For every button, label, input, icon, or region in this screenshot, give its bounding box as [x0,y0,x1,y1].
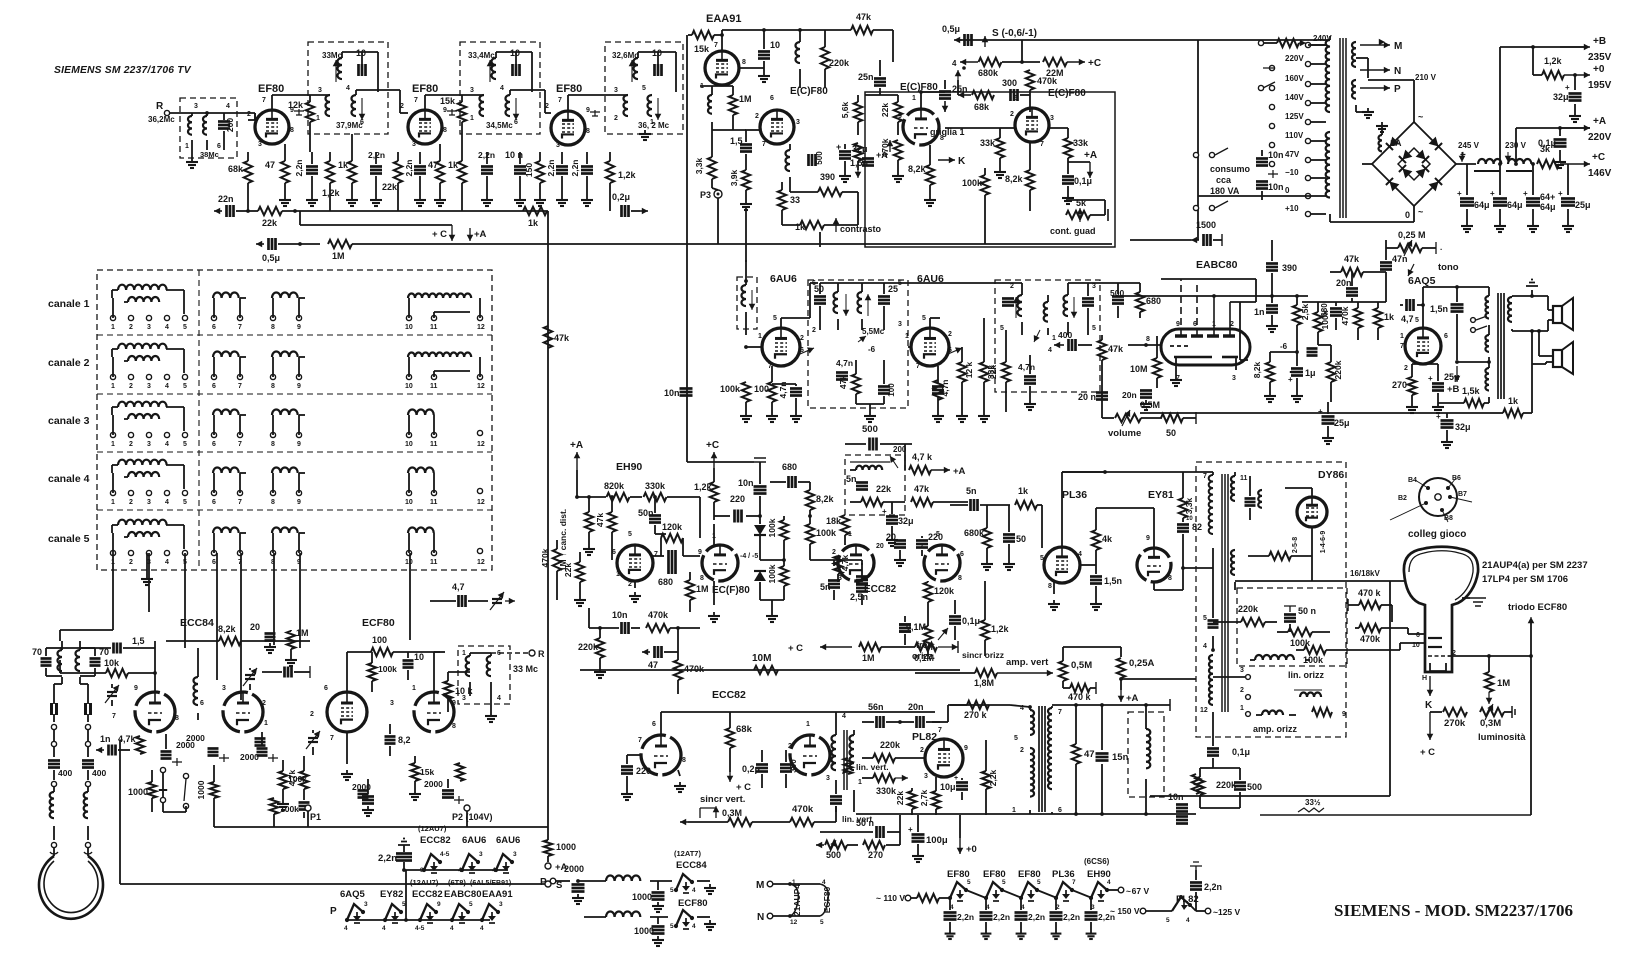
heater cap 2,2n 4 [1050,898,1081,939]
capacitor 2000 p [564,864,585,904]
svg-text:110V: 110V [1285,131,1304,140]
coil T2c [500,85,519,126]
capacitor 8,2 mix [385,724,411,756]
svg-text:32μ: 32μ [1455,422,1471,432]
capacitor 10n pd [699,495,702,502]
svg-text:2: 2 [920,747,924,754]
svg-text:10: 10 [405,324,413,331]
vert transformer core [844,730,847,790]
svg-text:160V: 160V [1285,74,1304,83]
row divider 1 [97,334,492,336]
resistor 22k snd [988,330,1010,412]
ground 64u b [1494,222,1506,232]
label PL36 [1062,489,1087,501]
svg-text:22k: 22k [563,563,573,577]
switch fine tuning [160,767,188,812]
svg-text:7: 7 [238,324,242,331]
svg-text:1A: 1A [1390,138,1402,148]
svg-text:100k: 100k [816,528,837,538]
label P s [330,906,337,917]
svg-text:15k: 15k [440,96,456,106]
svg-text:M: M [756,880,764,891]
coil T3b [614,87,628,122]
node R input [148,101,192,124]
wire S line [958,28,1330,47]
svg-text:200: 200 [225,118,235,132]
svg-text:0,3M: 0,3M [1480,718,1501,729]
resistor 18k [826,515,849,545]
row divider 3 [97,451,492,453]
bridge diode D2 [1429,137,1442,150]
wire tap 240V [1311,44,1326,46]
resistor 1k pl [1015,486,1042,548]
svg-text:1000: 1000 [128,787,148,797]
wire ey plate [1122,508,1154,548]
svg-text:1: 1 [905,333,909,340]
capacitor 220 eh2 [597,622,600,629]
resistor 12k [958,347,974,412]
arrow +A agc [1068,150,1097,178]
canale 3 coil 10-12 [405,409,485,448]
svg-text:33: 33 [790,195,800,205]
svg-text:100k: 100k [720,384,741,394]
node N feed [757,912,792,923]
svg-text:0,1μ: 0,1μ [1538,138,1556,148]
coil T3c [642,85,661,126]
svg-text:8,2: 8,2 [398,735,411,745]
resistor 47k eh [575,495,616,560]
resistor 1000 +A [544,827,576,862]
label 38Mc [185,143,221,159]
resistor 100k crt [1296,643,1424,665]
svg-text:6: 6 [612,549,616,556]
svg-text:8: 8 [958,575,962,582]
wire 6au6b grid [908,346,911,348]
svg-text:4,7k: 4,7k [287,769,297,786]
title SIEMENS MOD [1334,901,1573,920]
svg-text:B2: B2 [1398,495,1407,502]
capacitor 500 fl [1200,768,1262,808]
ground 32u [839,172,851,182]
svg-text:0,1μ: 0,1μ [1232,747,1250,757]
pins rd [1000,283,1096,354]
capacitor 20n v [830,780,842,812]
coil T2a [487,58,496,82]
ground secondary [1356,105,1374,118]
wire video grid [745,129,760,131]
svg-text:10: 10 [405,499,413,506]
resistor 8,2k pd [806,482,835,516]
tube 6AU6 a [762,328,800,366]
gnd ecf80 h [697,917,716,930]
svg-text:6: 6 [1193,321,1197,328]
resistor 47k top [851,12,893,62]
svg-text:1,2k: 1,2k [694,482,713,492]
svg-text:15k: 15k [420,767,434,777]
tube ECC82 v2 [790,735,830,775]
svg-text:EY82: EY82 [380,889,403,900]
capacitor 0,1u agc [1062,170,1092,194]
svg-text:1,5k: 1,5k [1462,386,1481,396]
gnd mix plate [341,732,353,780]
svg-text:8: 8 [1146,336,1150,343]
svg-text:S (-0,6/-1): S (-0,6/-1) [992,28,1037,39]
svg-text:ECF80: ECF80 [362,617,395,629]
label ECC82 v [712,689,746,701]
svg-text:3: 3 [194,103,198,110]
svg-text:12: 12 [477,559,485,566]
svg-text:36, 2 Mc: 36, 2 Mc [638,121,670,130]
arrow amp vert [997,670,1053,677]
capacitor 64+64u [1523,162,1556,222]
svg-text:1k: 1k [1018,486,1029,496]
svg-text:1: 1 [758,333,762,340]
pins ECC82h [832,531,964,582]
gnd 1M t [285,656,297,666]
capacitor 500 v [809,151,825,166]
pins ECF80v1 [755,95,800,148]
svg-text:2,2n: 2,2n [993,912,1010,922]
svg-text:P: P [330,906,337,917]
svg-text:21AUP4(a) per SM 2237: 21AUP4(a) per SM 2237 [1482,560,1588,571]
svg-text:1: 1 [111,324,115,331]
svg-text:-6: -6 [1280,342,1288,351]
arrow +A vb [1118,690,1139,704]
gnd pin9 [294,109,304,115]
resistor 47 b [428,144,444,196]
svg-text:4-5: 4-5 [415,925,425,932]
label 2000 b [186,733,205,743]
svg-text:3: 3 [147,499,151,506]
resistor 8,2k agc [1005,142,1034,211]
coil i b [857,283,871,330]
svg-text:7: 7 [558,97,562,104]
heater chain link 3 [1037,890,1057,898]
wire tap 110V [1311,140,1326,142]
capacitor 2,5n pd [856,577,868,587]
resistor 22M [1043,58,1101,78]
svg-text:680: 680 [782,462,797,472]
choke L2 [1506,159,1532,171]
resistor 1,5k sp [1438,386,1489,407]
wire bottom bus 2 [1260,795,1531,815]
bridge diode D3 [1386,178,1399,191]
svg-text:7: 7 [330,735,334,742]
resistor 2,5k au [1293,296,1310,354]
svg-text:5: 5 [1092,325,1096,332]
resistor 22k b [382,152,402,211]
svg-text:12: 12 [477,383,485,390]
gnd ecc84 h [697,881,716,894]
resistor 100k fl [1277,628,1330,648]
resistor 270 aq [1392,364,1416,403]
svg-text:+: + [1318,407,1323,416]
capacitor 22n [214,194,248,217]
svg-text:1: 1 [462,650,466,657]
antenna cap 400 left [48,761,72,781]
colleg gioco socket [1419,478,1457,516]
svg-text:2-5-8: 2-5-8 [1292,537,1299,553]
svg-text:33,4Mc: 33,4Mc [468,51,495,60]
svg-text:820k: 820k [604,481,625,491]
svg-text:P: P [1394,84,1401,95]
svg-text:3: 3 [364,901,368,908]
wire long vertical 47k line [547,211,549,827]
wire pl36 top [1062,470,1107,547]
capacitor 25u aq [1412,364,1460,403]
svg-text:47n: 47n [1392,254,1408,264]
ratio det dashed box [995,280,1100,392]
gnd EH90 [629,581,641,602]
antenna balun cap 70 right [90,647,110,676]
svg-text:1M: 1M [739,94,752,104]
audio output transformer sec [1508,296,1512,331]
svg-text:2: 2 [1020,747,1024,754]
capacitor 15n y [1096,705,1129,816]
svg-text:7: 7 [414,97,418,104]
svg-text:3: 3 [147,441,151,448]
wire sel down 5 [240,553,242,700]
capacitor 10n mid [664,388,693,398]
svg-text:consumo: consumo [1210,164,1251,174]
capacitor 1,5n au [1430,285,1464,364]
svg-text:6: 6 [212,559,216,566]
gnd 100k t [277,800,289,810]
resistor 1M v pot [830,758,852,774]
svg-text:canale 1: canale 1 [48,298,90,310]
label 20 t [250,622,260,632]
svg-text:3: 3 [318,87,322,94]
svg-text:8,2k: 8,2k [218,624,237,634]
transformer tap 220V [1269,54,1310,71]
label EC(F)80 [712,585,750,596]
svg-text:220: 220 [928,532,943,542]
label ECC84 h [674,849,707,871]
IF transformer T2 dashed box [460,42,540,134]
resistor 470k s [880,138,902,172]
svg-text:+B: +B [1593,36,1606,47]
wire v drive [853,790,855,812]
label heater EH90 [1084,857,1111,880]
socket row1 6AU6a [458,851,483,874]
label EH90 [616,461,642,473]
label -6 au [1280,342,1288,351]
resistor 1k au [1374,302,1395,340]
wire plate EF80-2 [425,95,484,110]
svg-text:9: 9 [1146,535,1150,542]
resistor 47 y [1072,705,1095,816]
sound takeoff coil [741,260,755,335]
label amp orizz [1253,724,1298,734]
arrow +A eh [570,440,583,497]
taps 123 [1213,667,1250,716]
capacitor 2,2n b [368,150,385,196]
socket row1 ECC82 [420,851,450,874]
svg-text:4: 4 [450,925,454,932]
svg-text:(12AT7): (12AT7) [674,849,701,858]
coil L1 input [188,103,198,150]
svg-text:1500: 1500 [1196,220,1216,230]
capacitor 2,2n pl82 [1190,862,1222,911]
svg-text:10: 10 [405,383,413,390]
svg-text:volume: volume [1108,428,1141,439]
heater socket 5 [1089,882,1109,901]
svg-text:5n: 5n [966,486,977,496]
EABC80 anode bars [1175,334,1235,338]
input tuned circuit dashed box [180,98,237,158]
svg-text:3: 3 [513,851,517,858]
svg-text:100k: 100k [280,804,299,814]
ground 25u [1562,222,1574,232]
svg-text:9: 9 [420,867,424,874]
svg-text:2,7k: 2,7k [919,789,929,806]
heater cap 2,2n 2 [980,898,1011,939]
label 210V [1415,73,1437,82]
svg-text:2,2k: 2,2k [988,769,998,786]
wire T1 top [342,52,378,92]
svg-text:64μ: 64μ [1540,202,1556,212]
resistor 8,2k t [155,624,310,648]
svg-text:P: P [540,877,547,888]
svg-text:25μ: 25μ [1334,418,1350,428]
wire T2 sec out [510,90,551,113]
svg-text:235V: 235V [1588,52,1612,63]
resistor 4,7k pd [834,554,850,582]
svg-text:3: 3 [470,87,474,94]
svg-text:6AQ5: 6AQ5 [340,889,366,900]
heater chain link 1 [966,890,986,898]
svg-text:10: 10 [652,48,662,58]
svg-text:+ C: + C [788,643,803,654]
svg-text:·: · [1440,245,1443,254]
capacitor 20 h [886,532,906,556]
canale 2 coil 10-12 [405,352,485,390]
svg-text:2,2n: 2,2n [1204,882,1222,892]
inner dashed box lin [1237,588,1347,666]
wire P2 line [466,811,468,827]
resistor 12k [288,95,314,152]
svg-text:ECC82: ECC82 [864,584,897,595]
svg-text:7: 7 [762,141,766,148]
svg-text:10n: 10n [664,388,680,398]
socket EAA91 s [480,901,503,932]
svg-text:5: 5 [1037,879,1041,886]
svg-text:(6CS6): (6CS6) [1084,857,1110,866]
heater socket 2 [984,882,1004,901]
label heater EF80 1 [947,869,970,880]
svg-text:EF80: EF80 [556,83,582,95]
svg-text:100: 100 [372,635,387,645]
svg-text:4: 4 [1078,551,1082,558]
svg-text:25μ: 25μ [1575,200,1591,210]
svg-text:5: 5 [469,901,473,908]
trap coil a [462,650,470,702]
label EY82 s [380,889,403,900]
svg-text:12: 12 [477,441,485,448]
wire ey to fly [1183,567,1213,569]
ground T3 [639,130,651,140]
resistor 100k pd [767,516,788,560]
capacitor 220 ec [714,494,760,523]
dot 1M [298,242,302,246]
label +0 195V [1588,64,1612,91]
svg-text:+: + [882,507,887,516]
svg-text:10: 10 [510,48,520,58]
resistor 330k v [873,774,895,792]
svg-text:8,2k: 8,2k [908,164,927,174]
capacitor 10 mix [403,652,425,680]
svg-text:2: 2 [129,499,133,506]
svg-text:+: + [836,142,841,152]
svg-text:tono: tono [1438,262,1459,273]
resistor 22k v [895,788,916,815]
ground 64+64u [1527,222,1539,232]
capacitor 50n lv [820,815,900,838]
row divider 2 [97,393,492,395]
svg-text:3: 3 [479,851,483,858]
svg-text:470k: 470k [684,664,705,674]
svg-text:9: 9 [297,324,301,331]
svg-text:9: 9 [1342,711,1346,718]
label ECC82 s1 [410,878,443,900]
gnd 220k eh [594,668,606,678]
capacitor 4,7n snd [772,381,802,412]
wire 025A right [1121,678,1196,680]
wire tap 220V [1311,63,1326,65]
gnd pin9 2 [447,109,457,115]
pins EF80-2 [400,97,447,148]
tube EH90 t [617,545,653,581]
svg-text:+ C: + C [736,782,751,793]
svg-text:0,2μ: 0,2μ [742,764,760,774]
svg-text:47k: 47k [914,484,930,494]
svg-text:270: 270 [868,850,883,860]
label 32,6Mc [612,51,639,60]
capacitor 47n au [1368,258,1392,270]
capacitor 5n pd [820,581,840,601]
svg-text:1M: 1M [332,251,345,261]
svg-text:3: 3 [556,142,560,149]
svg-text:canale 4: canale 4 [48,473,90,485]
svg-text:4-5: 4-5 [440,851,450,858]
capacitor 0,2u [612,192,648,217]
svg-text:12: 12 [477,499,485,506]
capacitor 20 t [254,634,276,641]
trimmer mix [306,730,320,755]
mains switch contacts [1258,68,1275,91]
svg-text:100: 100 [887,383,896,397]
5,5Mc IF transformer dashed box [808,280,908,408]
wire ey out [1154,545,1185,590]
wire dy [1285,488,1312,497]
resistor 680k [960,58,1040,78]
svg-text:220: 220 [636,766,651,776]
capacitor 390 au [1266,240,1297,296]
svg-text:10n: 10n [1268,182,1284,192]
label 4,7k t [118,734,137,744]
svg-text:4: 4 [382,925,386,932]
pins 6AU6b [905,315,952,370]
wire sec bottom [1512,329,1548,333]
pins PL36 [1040,551,1082,590]
speaker switch [1471,316,1487,332]
gnd crt [1462,598,1486,606]
svg-text:8: 8 [271,441,275,448]
resistor 1k c [448,152,466,211]
svg-text:1k: 1k [338,160,349,170]
resistor 150 [524,152,544,196]
wire t bus [214,826,548,828]
